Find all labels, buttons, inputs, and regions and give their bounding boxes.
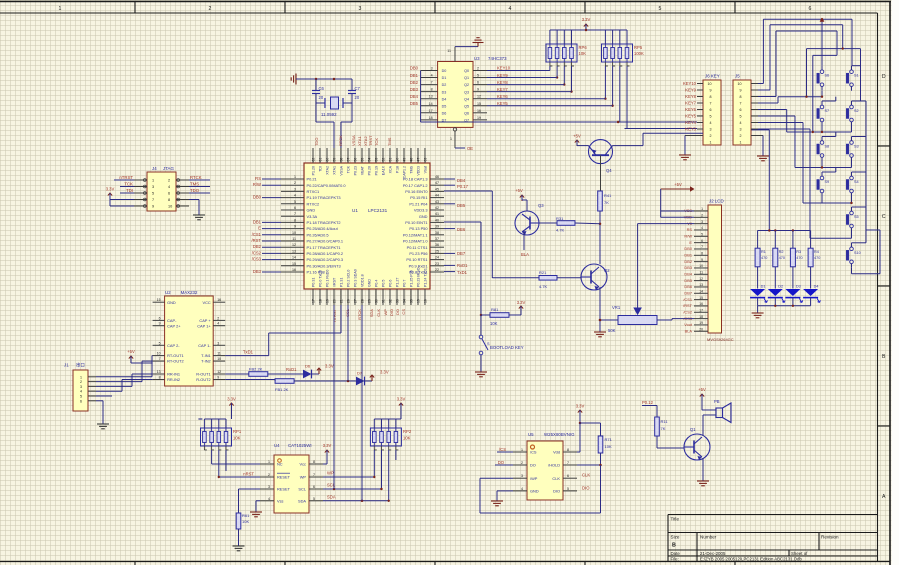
svg-text:KEY7: KEY7	[685, 100, 696, 105]
net label P0.12 speaker	[642, 400, 657, 406]
wire RxD1 row2	[225, 379, 275, 381]
U3 LE pin top	[447, 47, 473, 62]
wire key row KEY3	[625, 128, 698, 130]
svg-text:RxD1: RxD1	[286, 367, 297, 372]
wire speaker base	[657, 406, 684, 449]
svg-text:TCK: TCK	[347, 165, 351, 173]
svg-text:U3: U3	[474, 56, 480, 61]
svg-text:63: 63	[423, 158, 427, 162]
svg-text:S8: S8	[825, 145, 830, 149]
svg-text:VSSA: VSSA	[340, 165, 344, 175]
svg-text:5: 5	[710, 115, 712, 119]
svg-text:DB1: DB1	[253, 219, 262, 224]
svg-text:Revision: Revision	[821, 535, 839, 540]
svg-text:D6: D6	[442, 111, 447, 115]
svg-text:DO: DO	[530, 463, 536, 468]
svg-text:nTRST: nTRST	[119, 175, 133, 180]
svg-text:15: 15	[477, 102, 481, 106]
svg-text:35: 35	[409, 299, 413, 303]
svg-text:nTRST: nTRST	[332, 308, 337, 321]
svg-text:KEY10: KEY10	[497, 66, 511, 71]
svg-text:Size: Size	[671, 535, 680, 540]
switch S5	[846, 207, 858, 232]
svg-text:R-OUT2: R-OUT2	[196, 377, 210, 382]
net label RxD1	[286, 367, 297, 372]
svg-text:7: 7	[567, 461, 569, 465]
svg-text:3: 3	[217, 341, 219, 345]
wire U4 SCL row	[323, 483, 382, 491]
eeprom U4 CAT1025 body	[260, 443, 323, 513]
svg-text:P0.0 TxD0: P0.0 TxD0	[319, 270, 323, 287]
svg-text:P0.12/MAT1.1: P0.12/MAT1.1	[403, 232, 428, 237]
svg-text:Q0: Q0	[464, 69, 469, 73]
crystal Y1 11.0592	[316, 97, 352, 117]
net label /CS flash	[497, 447, 513, 452]
svg-text:13: 13	[429, 95, 433, 99]
switch S9	[817, 172, 829, 197]
power 3.3V D7	[365, 370, 389, 382]
ground Q2	[594, 332, 606, 337]
svg-text:S6: S6	[825, 74, 830, 78]
svg-text:58: 58	[339, 158, 343, 162]
LED D2	[768, 285, 785, 306]
power arrow +5V LCD	[661, 182, 695, 192]
svg-text:61: 61	[318, 158, 322, 162]
svg-text:38: 38	[435, 231, 439, 235]
svg-text:3: 3	[294, 187, 296, 191]
net label OE	[467, 146, 473, 151]
svg-text:CAP 2-: CAP 2-	[167, 343, 180, 348]
svg-text:4: 4	[168, 185, 170, 189]
switch S11 BOOTLOAD KEY	[479, 315, 490, 372]
svg-text:3: 3	[152, 185, 154, 189]
svg-text:6: 6	[294, 206, 296, 210]
svg-text:RxD1: RxD1	[457, 263, 468, 268]
svg-text:1: 1	[710, 141, 712, 145]
svg-text:10: 10	[708, 82, 712, 86]
svg-text:2: 2	[168, 179, 170, 183]
switch S4	[846, 172, 858, 197]
svg-text:Vbat: Vbat	[424, 166, 428, 173]
svg-text:10K: 10K	[605, 444, 612, 449]
U3 left pins	[421, 67, 438, 120]
svg-text:1: 1	[740, 141, 742, 145]
svg-text:R-OUT1: R-OUT1	[196, 372, 210, 377]
wire U4 SDA row	[323, 494, 389, 502]
svg-text:40: 40	[435, 218, 439, 222]
svg-text:23: 23	[435, 262, 439, 266]
svg-text:KEY5: KEY5	[685, 113, 696, 118]
svg-text:+5V: +5V	[674, 182, 682, 187]
svg-text:nRST: nRST	[333, 277, 337, 287]
J2 LCD pins and labels	[683, 207, 708, 333]
svg-text:P0.18 CAP1.3: P0.18 CAP1.3	[403, 177, 428, 182]
svg-text:S2: S2	[854, 109, 859, 113]
svg-text:11.0592: 11.0592	[321, 112, 337, 117]
wire key matrix top nest 3	[758, 31, 837, 97]
svg-text:16: 16	[699, 302, 703, 306]
svg-text:File:: File:	[671, 557, 679, 562]
svg-text:18: 18	[699, 315, 703, 319]
svg-text:DB1: DB1	[410, 73, 419, 78]
svg-text:74HC373: 74HC373	[488, 56, 507, 61]
resistor pack RP5 100K	[602, 30, 644, 66]
svg-text:KEY10: KEY10	[683, 81, 697, 86]
svg-text:6: 6	[740, 108, 742, 112]
svg-text:RTCK: RTCK	[190, 175, 202, 180]
power 3.3V flash	[576, 404, 585, 425]
net label DO flash	[495, 460, 513, 465]
svg-text:7K: 7K	[604, 200, 609, 205]
svg-text:TDO: TDO	[314, 138, 319, 146]
svg-text:3.3V: 3.3V	[576, 404, 585, 409]
svg-text:J5: J5	[735, 74, 740, 79]
svg-text:17: 17	[311, 299, 315, 303]
svg-text:9: 9	[159, 322, 161, 326]
svg-text:Q5: Q5	[464, 104, 469, 108]
svg-text:+5V: +5V	[127, 349, 135, 354]
svg-text:8: 8	[313, 460, 315, 464]
svg-text:/CS2: /CS2	[683, 309, 692, 314]
svg-text:nRST: nRST	[243, 472, 254, 477]
svg-text:P0.21: P0.21	[307, 177, 317, 182]
svg-text:7: 7	[701, 245, 703, 249]
svg-text:BLA: BLA	[685, 328, 693, 333]
svg-text:RS: RS	[255, 176, 261, 181]
svg-text:Title: Title	[671, 517, 680, 522]
svg-text:+5V: +5V	[698, 387, 706, 392]
svg-text:P0.23 MISO: P0.23 MISO	[417, 267, 421, 287]
svg-text:VDD1.8: VDD1.8	[361, 274, 365, 287]
svg-text:R41: R41	[604, 193, 612, 198]
svg-text:R4: R4	[814, 250, 819, 254]
svg-text:9: 9	[701, 258, 703, 262]
svg-text:R/W: R/W	[253, 182, 261, 187]
svg-text:3: 3	[80, 385, 82, 389]
resistor R61 10K	[236, 513, 250, 546]
svg-text:P0.13 P50: P0.13 P50	[409, 226, 428, 231]
svg-text:Q4: Q4	[606, 168, 612, 173]
flash U5 W25X80 body	[513, 432, 577, 500]
svg-text:4: 4	[521, 487, 523, 491]
svg-text:7: 7	[294, 212, 296, 216]
net label nRST	[243, 472, 254, 477]
svg-text:49: 49	[402, 158, 406, 162]
svg-text:S9: S9	[825, 180, 830, 184]
net label CLK flash	[582, 473, 590, 478]
svg-text:50: 50	[395, 158, 399, 162]
svg-text:14: 14	[429, 102, 433, 106]
resistor R2 470	[773, 248, 785, 288]
svg-text:7: 7	[313, 473, 315, 477]
svg-text:10: 10	[157, 352, 161, 356]
svg-text:P0.12/MAT1.0: P0.12/MAT1.0	[403, 239, 428, 244]
svg-text:D0: D0	[442, 69, 447, 73]
wire key row KEY4	[421, 121, 697, 124]
svg-text:3.3V: 3.3V	[380, 370, 389, 375]
svg-text:TxD1: TxD1	[243, 350, 254, 355]
svg-text:U4: U4	[274, 443, 280, 448]
svg-text:R1: R1	[761, 250, 766, 254]
svg-text:42: 42	[435, 206, 439, 210]
power 3.3V JTAG	[106, 187, 115, 200]
svg-text:BLA: BLA	[521, 252, 529, 257]
U3 OE pin bottom	[450, 128, 465, 148]
svg-text:16: 16	[477, 109, 481, 113]
connector J6 KEY	[703, 74, 721, 146]
svg-text:DB0: DB0	[253, 195, 262, 200]
connector J2 LCD	[707, 199, 734, 343]
svg-text:19: 19	[477, 116, 481, 120]
wire LED top bus	[752, 130, 811, 248]
svg-text:/WP: /WP	[530, 476, 538, 481]
svg-text:TMS: TMS	[410, 165, 414, 173]
switch S3	[846, 137, 858, 162]
svg-text:T-IN1: T-IN1	[201, 353, 211, 358]
svg-text:37: 37	[435, 237, 439, 241]
svg-text:DIO: DIO	[582, 486, 590, 491]
wire to diode D6	[268, 373, 303, 375]
svg-text:3.3V: 3.3V	[517, 300, 526, 305]
svg-text:6: 6	[159, 316, 161, 320]
svg-text:XTA1: XTA1	[333, 166, 337, 175]
svg-text:2: 2	[268, 473, 270, 477]
wire VR1 wiper	[637, 224, 639, 309]
wire KEY9 row	[487, 77, 557, 79]
svg-text:P1.17 TRACEPKT1: P1.17 TRACEPKT1	[307, 245, 341, 250]
svg-text:3.3V: 3.3V	[582, 17, 591, 22]
svg-text:1: 1	[701, 207, 703, 211]
svg-text:Vss: Vss	[277, 498, 284, 503]
wire J5 gnd	[751, 136, 763, 157]
svg-text:P0.22/CAP0.0/MAT0.0: P0.22/CAP0.0/MAT0.0	[307, 183, 347, 188]
wire row2 to diode D7	[294, 305, 356, 382]
svg-text:18: 18	[318, 299, 322, 303]
svg-text:6: 6	[710, 108, 712, 112]
svg-text:28: 28	[360, 299, 364, 303]
svg-text:CAP +: CAP +	[199, 318, 211, 323]
wire RP top bus	[550, 29, 627, 32]
net label DIO flash	[582, 486, 590, 491]
svg-text:4: 4	[710, 121, 712, 125]
svg-text:EA1X: EA1X	[382, 165, 386, 175]
svg-text:P0.10 RTS1: P0.10 RTS1	[406, 257, 427, 262]
wire KEY6 row	[487, 98, 605, 100]
svg-text:C7: C7	[355, 86, 361, 91]
svg-text:10: 10	[292, 231, 296, 235]
svg-text:E:\ZYB 2005 200512\LPC2131 Edi: E:\ZYB 2005 200512\LPC2131 Edition ABC21…	[700, 557, 802, 562]
svg-text:RR-IN1: RR-IN1	[167, 372, 180, 377]
svg-text:TxD1: TxD1	[457, 270, 468, 275]
svg-text:MAX232: MAX232	[181, 290, 198, 295]
svg-text:DB3: DB3	[684, 265, 692, 270]
svg-text:57: 57	[346, 158, 350, 162]
svg-text:24: 24	[435, 256, 439, 260]
ground U4	[250, 512, 262, 517]
svg-text:6: 6	[477, 81, 479, 85]
svg-text:J1: J1	[64, 363, 69, 368]
svg-text:Sheet of: Sheet of	[791, 551, 808, 556]
svg-text:R11: R11	[661, 419, 669, 424]
svg-text:TCK: TCK	[124, 182, 133, 187]
svg-text:DB6: DB6	[684, 284, 692, 289]
svg-text:5: 5	[159, 341, 161, 345]
svg-text:RTCK: RTCK	[357, 309, 362, 320]
svg-text:4: 4	[217, 322, 219, 326]
ground flash	[491, 501, 503, 506]
svg-text:51: 51	[388, 158, 392, 162]
title block	[668, 515, 878, 562]
svg-text:43: 43	[435, 200, 439, 204]
U1 right pins	[403, 175, 444, 275]
svg-text:P1.21 P04: P1.21 P04	[409, 201, 428, 206]
svg-text:3.3V: 3.3V	[106, 187, 115, 192]
svg-text:DIO: DIO	[553, 489, 560, 494]
svg-text:32: 32	[388, 299, 392, 303]
power +5V speaker	[698, 387, 716, 410]
wire key col1 chain	[822, 97, 836, 172]
svg-text:5: 5	[701, 233, 703, 237]
svg-text:5: 5	[659, 6, 662, 12]
net label TDO	[189, 188, 210, 193]
svg-text:J4: J4	[152, 166, 157, 171]
svg-text:9: 9	[477, 88, 479, 92]
svg-text:5: 5	[152, 192, 154, 196]
svg-text:17: 17	[429, 109, 433, 113]
U1 left net labels	[251, 176, 281, 274]
svg-text:NC: NC	[277, 462, 283, 467]
svg-text:S3: S3	[854, 145, 859, 149]
switch S10	[846, 243, 860, 268]
svg-text:20: 20	[319, 95, 324, 100]
svg-text:3.3V: 3.3V	[227, 397, 236, 402]
svg-text:Date: Date	[671, 551, 681, 556]
resistor pack RP2 10K	[370, 419, 411, 450]
svg-text:DB2: DB2	[684, 259, 692, 264]
wire key matrix col1 feed	[820, 18, 825, 66]
wire LCD VSS	[661, 189, 694, 217]
J6 pin wires and KEY labels	[683, 81, 703, 131]
svg-text:S10: S10	[854, 251, 861, 255]
connector J5	[733, 74, 751, 146]
svg-text:P0.27/AD0.0/CAP0.1: P0.27/AD0.0/CAP0.1	[307, 239, 344, 244]
svg-text:470: 470	[814, 256, 820, 260]
wire key row4 bottom	[758, 123, 853, 205]
svg-text:RTXC2: RTXC2	[307, 201, 320, 206]
svg-text:1: 1	[521, 448, 523, 452]
svg-text:3: 3	[359, 6, 362, 12]
latch U3 74HC373 body	[438, 56, 508, 127]
svg-text:E: E	[689, 240, 692, 245]
svg-text:FB1 2K: FB1 2K	[275, 387, 289, 392]
svg-text:46: 46	[435, 175, 439, 179]
svg-text:P0.25/AD0.4/Aout: P0.25/AD0.4/Aout	[307, 226, 339, 231]
wire U4 RESET row3 to R61	[239, 489, 261, 513]
svg-text:45: 45	[435, 187, 439, 191]
svg-text:D2: D2	[442, 83, 447, 87]
transistor Q4	[589, 140, 613, 173]
svg-text:P0.26/AD0.5: P0.26/AD0.5	[307, 232, 329, 237]
svg-text:Vout: Vout	[684, 322, 693, 327]
svg-text:P0.17 CAP1.2: P0.17 CAP1.2	[403, 183, 428, 188]
svg-text:S7: S7	[825, 109, 830, 113]
svg-text:26: 26	[346, 299, 350, 303]
svg-text:DB5: DB5	[684, 278, 692, 283]
svg-text:VDD3: VDD3	[417, 166, 421, 176]
svg-text:15: 15	[292, 262, 296, 266]
svg-text:P0.1 RxD0: P0.1 RxD0	[326, 270, 330, 287]
svg-text:WP: WP	[300, 475, 307, 480]
svg-text:TMS: TMS	[387, 137, 392, 146]
svg-text:41: 41	[435, 212, 439, 216]
svg-text:SCL: SCL	[298, 487, 306, 492]
svg-text:30: 30	[374, 299, 378, 303]
U1 bottom net labels	[332, 308, 406, 321]
svg-text:15: 15	[416, 299, 420, 303]
svg-text:19: 19	[325, 299, 329, 303]
svg-text:470: 470	[761, 256, 767, 260]
svg-text:D3: D3	[796, 285, 801, 289]
LED D4	[803, 285, 820, 306]
svg-text:13: 13	[292, 249, 296, 253]
svg-text:5: 5	[80, 395, 82, 399]
svg-text:CS: CS	[401, 309, 406, 315]
svg-text:Vcc: Vcc	[300, 462, 307, 467]
wire P0.14 to bootload	[444, 222, 482, 316]
svg-text:DB7: DB7	[457, 251, 466, 256]
svg-text:CLK: CLK	[552, 476, 560, 481]
potentiometer VR1 50K	[608, 305, 694, 333]
svg-text:56: 56	[353, 158, 357, 162]
svg-text:KEY8: KEY8	[497, 80, 508, 85]
ground R61	[233, 546, 245, 551]
svg-text:10: 10	[699, 264, 703, 268]
svg-text:54: 54	[367, 158, 371, 162]
svg-text:10K: 10K	[403, 436, 411, 441]
svg-text:10: 10	[168, 205, 172, 209]
svg-text:7: 7	[740, 102, 742, 106]
svg-text:11: 11	[447, 49, 451, 53]
svg-text:P1.19 TRACEPKT3: P1.19 TRACEPKT3	[307, 195, 341, 200]
svg-text:WP: WP	[327, 471, 334, 476]
svg-text:VSSA: VSSA	[351, 135, 356, 146]
U3 left net labels DB0-DB5	[410, 66, 419, 106]
svg-text:R21: R21	[539, 270, 547, 275]
svg-text:P.18: P.18	[396, 166, 400, 173]
resistor FB2 2K	[249, 367, 268, 377]
wire RP2 outputs	[373, 450, 396, 502]
svg-text:9: 9	[740, 89, 742, 93]
svg-text:2: 2	[217, 316, 219, 320]
wire key row3 bottom	[758, 116, 852, 169]
svg-text:XTA2: XTA2	[326, 166, 330, 175]
svg-text:P1.23 P56: P1.23 P56	[409, 251, 427, 256]
svg-text:W25X80BVNIG: W25X80BVNIG	[544, 432, 575, 437]
svg-text:CAT1025WI: CAT1025WI	[288, 443, 312, 448]
svg-text:KEY6: KEY6	[497, 94, 508, 99]
svg-text:DB0: DB0	[410, 66, 419, 71]
wire LCD V0 VR1	[638, 223, 694, 225]
power 3.3V RP1	[227, 397, 236, 420]
svg-text:R71: R71	[605, 437, 613, 442]
svg-text:12: 12	[217, 370, 221, 374]
svg-text:20: 20	[355, 95, 360, 100]
wire KEY5 row	[487, 105, 613, 107]
svg-text:Q1: Q1	[690, 427, 696, 432]
svg-text:4: 4	[80, 390, 82, 394]
svg-text:50K: 50K	[608, 328, 616, 333]
svg-text:DB0: DB0	[684, 246, 692, 251]
